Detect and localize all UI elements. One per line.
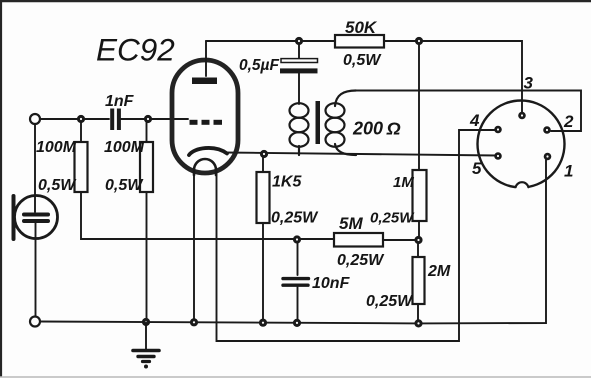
- svg-text:1nF: 1nF: [105, 93, 135, 110]
- node cathode: [260, 150, 268, 158]
- ground rail: [40, 160, 546, 323]
- pin 2: [543, 126, 551, 134]
- resistor R4 1K5: [257, 158, 270, 321]
- transformer T1 secondary: [326, 91, 357, 156]
- svg-text:0,5W: 0,5W: [38, 177, 77, 194]
- svg-text:5M: 5M: [339, 214, 363, 233]
- tube cathode: [189, 148, 227, 155]
- svg-text:0,5W: 0,5W: [343, 52, 382, 69]
- resistor R1 100M: [75, 122, 335, 239]
- svg-text:3: 3: [524, 74, 534, 93]
- resistor R5 5M: [334, 233, 383, 247]
- node 10nF top: [293, 235, 301, 243]
- heater lead right: [217, 130, 497, 341]
- node R6 bottom: [414, 236, 422, 244]
- tube heater: [194, 159, 216, 175]
- capacitor C2 0,5uF: [280, 45, 318, 104]
- node ground 10nF: [293, 319, 301, 327]
- wire input to C1: [40, 118, 109, 120]
- transformer T1 primary: [290, 103, 309, 155]
- resistor R6 1M: [413, 45, 427, 236]
- wire cathode to pin5: [224, 153, 497, 156]
- svg-text:0,25W: 0,25W: [271, 210, 319, 227]
- tube EC92 envelope: [172, 60, 238, 173]
- pin 1: [544, 153, 552, 161]
- ground symbol: [133, 322, 159, 368]
- svg-text:0,5µF: 0,5µF: [239, 57, 279, 74]
- heater lead left to ground: [193, 172, 195, 320]
- wire anode top rail: [206, 40, 335, 42]
- node R1 top: [77, 115, 85, 123]
- tube anode plate: [192, 78, 217, 85]
- svg-text:4: 4: [469, 111, 480, 130]
- wire 50K to pin3 corner: [384, 41, 522, 112]
- pin 3: [518, 112, 526, 120]
- pin 5: [494, 152, 502, 160]
- svg-text:200 Ω: 200 Ω: [352, 119, 401, 139]
- svg-text:EC92: EC92: [96, 32, 175, 68]
- capacitor C1 1nF: [112, 109, 119, 131]
- svg-text:10nF: 10nF: [312, 275, 351, 292]
- svg-text:1M: 1M: [393, 174, 414, 191]
- terminal input top: [30, 114, 40, 124]
- svg-text:0,25W: 0,25W: [366, 293, 414, 310]
- node ground R7: [414, 319, 422, 327]
- scan border top: [0, 0, 591, 2]
- resistor R7 2M: [413, 244, 425, 322]
- svg-text:0,25W: 0,25W: [337, 252, 385, 269]
- svg-text:50K: 50K: [345, 18, 378, 37]
- svg-text:2M: 2M: [427, 263, 451, 280]
- DIN connector U1: [478, 101, 565, 188]
- node B+: [415, 37, 423, 45]
- svg-text:5: 5: [472, 159, 482, 178]
- svg-text:100M: 100M: [104, 139, 145, 156]
- svg-text:1: 1: [564, 162, 573, 181]
- node ground R2: [142, 318, 150, 326]
- node ground 1K5: [259, 319, 267, 327]
- node R2 top: [144, 115, 152, 123]
- tube anode lead: [205, 41, 207, 76]
- tube grid dashes: [190, 120, 223, 125]
- pin 4: [494, 126, 502, 134]
- wire secondary top to pin2: [356, 91, 581, 132]
- svg-text:100M: 100M: [36, 139, 77, 156]
- svg-text:1K5: 1K5: [272, 174, 302, 191]
- scan border left: [0, 0, 2, 376]
- resistor R2 100M: [140, 122, 153, 320]
- svg-text:2: 2: [563, 112, 574, 131]
- terminal input bottom: [30, 317, 40, 327]
- node ground heater: [190, 318, 198, 326]
- resistor R3 50K: [335, 35, 384, 48]
- node C2 top: [295, 37, 303, 45]
- svg-text:0,25W: 0,25W: [370, 210, 415, 227]
- wire 5M to 1M node: [383, 239, 418, 241]
- capacitor microphone M1: [14, 124, 58, 317]
- wire C1 to grid: [121, 118, 188, 120]
- scan border bottom: [0, 376, 591, 378]
- transformer core: [316, 101, 321, 144]
- svg-text:0,5W: 0,5W: [105, 177, 144, 194]
- capacitor C3 10nF: [283, 243, 309, 321]
- connector notch: [515, 182, 529, 196]
